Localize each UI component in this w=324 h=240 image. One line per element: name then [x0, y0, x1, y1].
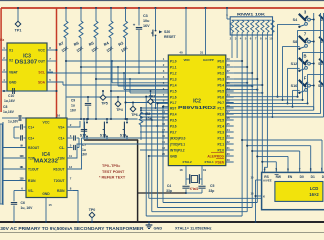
svg-text:34: 34: [227, 87, 231, 91]
svg-text:VS+: VS+: [58, 125, 64, 129]
svg-text:12: 12: [162, 146, 166, 150]
svg-text:C1-: C1-: [59, 146, 64, 150]
svg-text:23: 23: [227, 134, 231, 138]
svg-text:11: 11: [19, 165, 22, 169]
svg-text:R2IN: R2IN: [57, 189, 65, 193]
svg-text:S20: S20: [164, 30, 170, 34]
svg-text:X’tal1: X’tal1: [190, 187, 199, 191]
svg-text:16: 16: [57, 114, 61, 118]
svg-text:P3.7: P3.7: [170, 130, 177, 134]
svg-text:XTAL2: XTAL2: [182, 160, 192, 164]
svg-text:32: 32: [227, 99, 231, 103]
svg-text:C4: C4: [167, 184, 171, 188]
svg-text:33p: 33p: [209, 189, 215, 193]
svg-text:P3.4: P3.4: [170, 112, 177, 116]
svg-text:A/VEE: A/VEE: [263, 178, 272, 182]
svg-text:LCD: LCD: [310, 186, 319, 191]
svg-text:P2.0: P2.0: [217, 148, 224, 152]
svg-text:15: 15: [49, 203, 53, 207]
svg-text:33: 33: [227, 93, 231, 97]
svg-text:TEST POINT: TEST POINT: [102, 170, 125, 174]
svg-text:VBAT: VBAT: [9, 70, 18, 74]
svg-text:SDA: SDA: [38, 80, 46, 84]
svg-text:S16: S16: [291, 84, 298, 88]
svg-text:21: 21: [227, 146, 231, 150]
svg-text:16V: 16V: [143, 24, 150, 28]
svg-text:EN: EN: [288, 175, 293, 179]
svg-text:31: 31: [200, 51, 204, 55]
svg-text:8: 8: [310, 167, 312, 171]
svg-text:DS1307: DS1307: [15, 60, 38, 66]
svg-text:P0.7: P0.7: [217, 101, 224, 105]
svg-text:P2.1: P2.1: [217, 142, 224, 146]
svg-text:24: 24: [227, 128, 231, 132]
svg-text:1u,16V: 1u,16V: [8, 120, 19, 124]
svg-text:T1OUT: T1OUT: [28, 167, 39, 171]
svg-text:R2OUT: R2OUT: [28, 146, 39, 150]
svg-text:11: 11: [162, 140, 165, 144]
svg-text:38: 38: [227, 63, 231, 67]
svg-text:D0: D0: [300, 175, 304, 179]
svg-text:18: 18: [179, 168, 183, 172]
svg-text:P2.2: P2.2: [217, 136, 224, 140]
svg-text:35: 35: [227, 81, 231, 85]
svg-text:15: 15: [251, 176, 254, 180]
svg-text:C2+: C2+: [28, 136, 34, 140]
svg-text:37: 37: [227, 69, 231, 73]
svg-text:IC4: IC4: [42, 152, 50, 158]
svg-text:C6: C6: [21, 201, 25, 205]
svg-text:S8: S8: [293, 40, 298, 44]
svg-text:P1.3: P1.3: [170, 77, 177, 81]
svg-text:26: 26: [227, 116, 231, 120]
svg-text:14: 14: [162, 110, 166, 114]
svg-text:P0.6: P0.6: [217, 95, 224, 99]
svg-text:GND: GND: [170, 154, 178, 158]
svg-text:P1.7: P1.7: [170, 101, 177, 105]
svg-text:F: F: [304, 76, 307, 81]
svg-text:P1.6: P1.6: [170, 95, 177, 99]
svg-text:C9: C9: [71, 99, 75, 103]
svg-text:15: 15: [162, 116, 166, 120]
svg-text:(RXD)P3.0: (RXD)P3.0: [170, 136, 186, 140]
svg-text:PSEN: PSEN: [215, 160, 224, 164]
svg-text:C8: C8: [3, 105, 7, 109]
svg-text:C3: C3: [143, 14, 148, 18]
svg-text:GND: GND: [42, 192, 50, 196]
svg-text:16: 16: [251, 192, 254, 196]
svg-text:+: +: [133, 23, 136, 28]
svg-text:P2.5: P2.5: [217, 118, 224, 122]
svg-text:TP5: TP5: [101, 102, 108, 106]
svg-text:P0.4: P0.4: [217, 83, 224, 87]
svg-text:TP0: TP0: [89, 208, 96, 212]
svg-text:C1+: C1+: [28, 125, 34, 129]
svg-text:27: 27: [227, 110, 231, 114]
svg-text:RNW1 10K: RNW1 10K: [237, 11, 265, 16]
svg-text:28: 28: [227, 104, 231, 108]
svg-text:XTAL1: XTAL1: [204, 160, 214, 164]
svg-text:16×2: 16×2: [309, 192, 319, 197]
svg-text:39: 39: [227, 57, 231, 61]
svg-text:P0.0: P0.0: [217, 59, 224, 63]
svg-text:30: 30: [227, 152, 231, 156]
svg-text:R2: R2: [146, 112, 151, 116]
svg-text:TP6: TP6: [131, 113, 138, 117]
svg-text:40: 40: [179, 51, 183, 55]
svg-text:X1: X1: [9, 48, 13, 52]
svg-text:10: 10: [162, 134, 166, 138]
svg-text:P2.3: P2.3: [217, 130, 224, 134]
svg-text:1u,16V: 1u,16V: [3, 110, 15, 114]
svg-text:Hz: Hz: [0, 38, 4, 42]
svg-text:VCC: VCC: [43, 121, 51, 125]
svg-text:X2: X2: [9, 58, 13, 62]
svg-text:C5: C5: [210, 184, 214, 188]
svg-text:XTAL1= 11.0592MHz: XTAL1= 11.0592MHz: [175, 226, 212, 231]
svg-text:P1.1: P1.1: [170, 65, 177, 69]
svg-text:20: 20: [162, 152, 166, 156]
svg-text:IC2: IC2: [193, 99, 201, 105]
svg-text:13: 13: [19, 177, 23, 181]
svg-text:RW: RW: [276, 175, 282, 179]
svg-text:R1OUT: R1OUT: [53, 167, 64, 171]
svg-text:T2IN: T2IN: [28, 156, 36, 160]
svg-text:B: B: [303, 54, 306, 59]
svg-text:INT0)P3.2: INT0)P3.2: [170, 148, 185, 152]
svg-text:P0.3: P0.3: [217, 77, 224, 81]
svg-text:R1IN: R1IN: [28, 179, 36, 183]
svg-text:16V: 16V: [70, 109, 77, 113]
svg-text:(TXD)P3.1: (TXD)P3.1: [170, 142, 185, 146]
svg-text:VS-: VS-: [28, 189, 34, 193]
svg-text:P3.5: P3.5: [170, 118, 177, 122]
svg-text:29: 29: [227, 158, 231, 162]
svg-text:12: 12: [69, 165, 73, 169]
svg-text:33p: 33p: [166, 189, 172, 193]
svg-text:P89V51RD2: P89V51RD2: [178, 105, 217, 110]
svg-text:11: 11: [69, 154, 72, 158]
svg-text:ALE/PROG: ALE/PROG: [207, 154, 224, 158]
svg-text:MAX232: MAX232: [34, 159, 58, 165]
svg-text:* REFER TEXT: * REFER TEXT: [99, 176, 126, 180]
svg-text:P0.5: P0.5: [217, 89, 224, 93]
svg-text:1u: 1u: [82, 148, 86, 152]
svg-text:OUT: OUT: [38, 59, 45, 63]
svg-text:TP2: TP2: [149, 94, 156, 98]
svg-text:10u: 10u: [143, 19, 150, 23]
svg-text:GND: GND: [9, 80, 17, 84]
svg-text:T1IN: T1IN: [57, 156, 65, 160]
svg-text:17: 17: [162, 128, 166, 132]
svg-text:1u,16V: 1u,16V: [4, 99, 16, 103]
svg-text:VCC: VCC: [38, 48, 46, 52]
svg-text:P2.4: P2.4: [217, 124, 224, 128]
svg-text:P2.7: P2.7: [217, 106, 224, 110]
svg-text:GND: GND: [154, 226, 163, 231]
svg-text:TP1: TP1: [15, 29, 22, 33]
svg-text:7: 7: [299, 167, 301, 171]
svg-text:19: 19: [203, 168, 207, 172]
svg-text:VDD: VDD: [183, 58, 189, 62]
svg-text:P0.1: P0.1: [217, 65, 224, 69]
svg-text:230V AC PRIMARY TO 9V,500mA SE: 230V AC PRIMARY TO 9V,500mA SECONDARY TR…: [0, 226, 145, 231]
svg-text:36: 36: [227, 75, 231, 79]
svg-text:S12: S12: [291, 62, 298, 66]
svg-text:S17: S17: [80, 134, 86, 138]
svg-text:1u, 16V: 1u, 16V: [21, 206, 34, 210]
svg-text:25: 25: [227, 122, 231, 126]
svg-text:SCL: SCL: [38, 70, 45, 74]
svg-text:C10: C10: [8, 94, 14, 98]
svg-text:5: 5: [275, 167, 277, 171]
svg-text:S18: S18: [100, 134, 106, 138]
svg-text:C1+: C1+: [58, 136, 64, 140]
svg-text:P1.5: P1.5: [170, 89, 177, 93]
svg-text:TP4: TP4: [116, 108, 123, 112]
svg-text:4: 4: [264, 167, 266, 171]
svg-text:10: 10: [269, 37, 273, 41]
svg-text:16: 16: [162, 122, 166, 126]
svg-text:RST: RST: [170, 106, 176, 110]
svg-text:10: 10: [19, 154, 23, 158]
svg-text:RESET: RESET: [164, 35, 177, 39]
svg-text:TP0–TP5=: TP0–TP5=: [102, 164, 121, 168]
svg-text:P1.0: P1.0: [170, 59, 177, 63]
svg-text:P2.6: P2.6: [217, 112, 224, 116]
svg-text:EA/VPP: EA/VPP: [203, 58, 214, 62]
svg-text:22: 22: [227, 140, 231, 144]
svg-text:6: 6: [287, 167, 289, 171]
svg-text:1u: 1u: [71, 104, 75, 108]
svg-text:P0.2: P0.2: [217, 71, 224, 75]
svg-text:10K: 10K: [146, 117, 153, 121]
svg-text:P1.4: P1.4: [170, 83, 177, 87]
svg-text:P1.2: P1.2: [170, 71, 177, 75]
svg-text:16V: 16V: [81, 153, 88, 157]
svg-text:P3.6: P3.6: [170, 124, 177, 128]
svg-text:T2OUT: T2OUT: [54, 179, 65, 183]
svg-text:D1: D1: [311, 175, 315, 179]
svg-text:S19: S19: [120, 134, 126, 138]
